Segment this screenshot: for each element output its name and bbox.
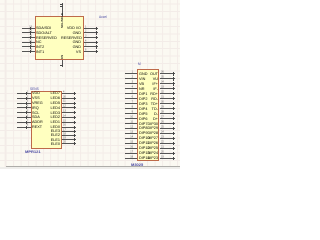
pin DIP4 left wire (125, 108, 138, 109)
designator label M (138, 63, 141, 66)
pin 9 INT2 wire (22, 46, 35, 47)
pin DIP28 right wire (160, 133, 176, 134)
pin DIP23 right wire (160, 158, 176, 159)
pin LED4 wire (62, 107, 76, 108)
pin LED5 wire (62, 103, 76, 104)
pin NR left wire (125, 88, 138, 89)
part name label MPR121 (25, 150, 41, 154)
pin IF+ right wire (160, 83, 176, 84)
IC U2 touch sensor MPR121 body (31, 91, 62, 149)
pin VDD wire (17, 93, 31, 94)
pin DIP24 right wire (160, 153, 176, 154)
pin 6 VS wire (84, 51, 99, 52)
pin 11 RESERVED wire (22, 37, 35, 38)
pin name CS vertical (61, 55, 64, 59)
pin DIP9 left wire (125, 133, 138, 134)
pin 3 RESERVED wire (84, 37, 99, 38)
pin LED1 wire (62, 122, 76, 123)
pin 4 GND wire (84, 42, 99, 43)
pin 14 SCL/SCLK top pin wire (62, 3, 63, 16)
pin DIP2 left wire (125, 98, 138, 99)
pin DIP12 left wire (125, 148, 138, 149)
pin DIP14 left wire (125, 158, 138, 159)
pin ADDR wire (17, 122, 31, 123)
pin DIP29 right wire (160, 128, 176, 129)
pin DIP5 left wire (125, 113, 138, 114)
pin D+ right wire (160, 118, 176, 119)
pin DIP1 left wire (125, 93, 138, 94)
pin 1 VDD I/O wire (84, 28, 99, 29)
pin VSS wire (17, 98, 31, 99)
pin VB left wire (125, 83, 138, 84)
pin DIP10 left wire (125, 138, 138, 139)
pin TD- right wire (160, 108, 176, 109)
pin DIP30 right wire (160, 123, 176, 124)
pin DIP26 right wire (160, 143, 176, 144)
pin D- right wire (160, 113, 176, 114)
pin 10 NC wire (22, 42, 35, 43)
pin 12 SDO/ALT wire (22, 32, 35, 33)
pin LED7 wire (62, 93, 76, 94)
pin IRQ wire (17, 107, 31, 108)
IC U1 accelerometer ADXL345 body (35, 16, 84, 61)
pin 8 INT1 wire (22, 51, 35, 52)
pin LED6 wire (62, 98, 76, 99)
pin DIP6 left wire (125, 118, 138, 119)
pin name SCL/SCLK vertical (61, 13, 64, 28)
module M1 body (137, 69, 159, 162)
pin RD+ right wire (160, 93, 176, 94)
pin 7 CS bottom pin wire (62, 60, 63, 67)
pin DIP7 left wire (125, 123, 138, 124)
pin 13 SDA/SDI wire (22, 28, 35, 29)
pin ELE2 wire (62, 135, 76, 136)
pin DIP13 left wire (125, 153, 138, 154)
pin DIP25 right wire (160, 148, 176, 149)
pin ELE1 wire (62, 139, 76, 140)
pin ELE0 wire (62, 143, 76, 144)
pin 14 number mark (60, 6, 63, 7)
pin VREG wire (17, 103, 31, 104)
pin DIP11 left wire (125, 143, 138, 144)
pin DIP3 left wire (125, 103, 138, 104)
sheet border bottom strip (0, 167, 180, 169)
pin TD+ right wire (160, 103, 176, 104)
pin DIP8 left wire (125, 128, 138, 129)
pin LED3 wire (62, 112, 76, 113)
pin REXT wire (17, 127, 31, 128)
pin SCL wire (17, 112, 31, 113)
pin SDA wire (17, 117, 31, 118)
pin LED2 wire (62, 117, 76, 118)
pin OUT right wire (160, 73, 176, 74)
pin LED0 wire (62, 127, 76, 128)
pin GND left wire (125, 73, 138, 74)
part name label M3025 (131, 163, 143, 167)
pin ELE3 wire (62, 131, 76, 132)
sheet border line (6, 166, 180, 167)
pin 2 GND wire (84, 32, 99, 33)
pin RD- right wire (160, 98, 176, 99)
pin DIP27 right wire (160, 138, 176, 139)
pin VU right wire (160, 78, 176, 79)
designator label SENS (30, 88, 39, 91)
designator label Accel (99, 16, 107, 19)
pin IF- right wire (160, 88, 176, 89)
pin VIN left wire (125, 78, 138, 79)
pin 5 GND wire (84, 46, 99, 47)
